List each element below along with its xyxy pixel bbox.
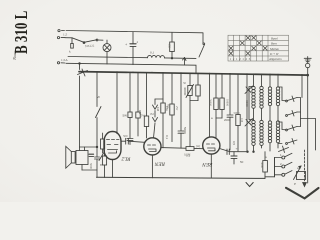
svg-text:W: W (97, 95, 100, 99)
svg-text:+: + (236, 147, 238, 151)
loudspeaker LS (66, 146, 75, 168)
switch S8 (286, 139, 297, 145)
resistor R4 (170, 104, 179, 142)
wire drop x209 tube3 (209, 73, 211, 137)
wire x302 drop (301, 75, 303, 98)
svg-text:B: B (100, 163, 102, 167)
wire T1a link (253, 108, 255, 120)
terminal minus (58, 30, 65, 32)
potentiometer P2 (294, 166, 306, 180)
svg-text:B 310 L: B 310 L (12, 11, 31, 54)
contact K1 (275, 153, 293, 159)
wire contacts vertical (274, 158, 276, 177)
switch S4 (199, 33, 205, 57)
trimmer S9b (245, 119, 253, 127)
aerial symbol (304, 57, 311, 64)
wire drop x138 (137, 73, 139, 113)
switch S6 (286, 111, 297, 117)
node right bus (247, 151, 249, 153)
node J1 (79, 63, 81, 65)
wire T2 right bracket lower (278, 122, 286, 130)
coil T2d lower secondary (276, 121, 279, 143)
wire T2c bottom lead (269, 143, 271, 151)
wire T2d bottom lead (277, 143, 279, 148)
wire T2b link (277, 106, 279, 121)
svg-text:0,1: 0,1 (165, 135, 169, 140)
svg-text:0,5: 0,5 (232, 141, 236, 146)
pickup arrow node (183, 58, 187, 66)
wire T2a link (269, 106, 271, 121)
potentiometer P1 (183, 73, 194, 100)
svg-text:Basel: Basel (271, 36, 278, 40)
svg-text:5000: 5000 (260, 162, 264, 169)
resistor R8 (236, 74, 244, 151)
wire left drop (79, 76, 81, 147)
wire drop x181 (178, 73, 184, 148)
wire T1 left bracket (249, 87, 254, 120)
potentiometer P3 (99, 152, 105, 168)
wire T1d bottom lead (261, 145, 263, 148)
wire T2a top lead (269, 74, 271, 87)
svg-text:0,1: 0,1 (248, 120, 252, 125)
capacitor C3 (89, 147, 100, 177)
contact K3 (275, 171, 293, 177)
grid cap G1 (153, 99, 158, 138)
resistor R7 (220, 74, 229, 118)
switch S2 (78, 69, 88, 76)
wire to fuse (65, 38, 72, 44)
ground small (246, 183, 253, 187)
capacitor C2 (127, 139, 133, 145)
svg-text:500: 500 (123, 134, 128, 138)
arrow down (303, 183, 307, 187)
coil T2c lower primary (268, 121, 271, 143)
svg-text:REN: REN (154, 160, 166, 166)
tube V3 REN (203, 137, 220, 178)
wire tube3 right (220, 149, 248, 152)
svg-text:15k: 15k (165, 106, 169, 111)
svg-text:6800: 6800 (245, 100, 249, 107)
resistor R3 (144, 112, 154, 138)
svg-text:1M: 1M (240, 118, 244, 123)
wire T2b top lead (277, 75, 279, 88)
contact K2 (275, 162, 293, 168)
resistor R10 horizontal (184, 147, 194, 158)
coil T2a primary (268, 87, 271, 106)
wire right bracket lower2 (278, 143, 282, 145)
lamp LP1 (103, 40, 111, 64)
terminal plus (57, 58, 68, 64)
choke L2 coil (148, 51, 165, 58)
misc tiny labels (97, 87, 299, 186)
resistor R5 (190, 73, 200, 146)
coil T1a primary (252, 86, 255, 108)
wire right edge vertical (307, 75, 309, 183)
resistor R11 (260, 152, 267, 179)
svg-text:RL2: RL2 (121, 156, 131, 162)
resistor R6 (209, 74, 219, 118)
coil T1d lower secondary (260, 120, 263, 145)
wire tee (155, 98, 163, 100)
wire drop x97 (96, 72, 98, 147)
table block (228, 35, 289, 61)
wire speaker top (80, 146, 98, 148)
svg-text:D + W: D + W (269, 52, 279, 56)
svg-text:1M: 1M (150, 112, 155, 116)
wire line L4 (66, 63, 196, 73)
wire to contacts (265, 158, 275, 177)
resistor R13 (101, 133, 105, 153)
node speaker (96, 146, 98, 148)
wire T1c bottom lead (253, 145, 255, 151)
resistor R12 (161, 99, 170, 148)
switch S1 (83, 39, 103, 48)
svg-text:5000: 5000 (183, 127, 187, 134)
svg-text:5W: 5W (123, 114, 128, 118)
fuse F1 (69, 44, 73, 54)
svg-text:50: 50 (240, 160, 244, 164)
svg-text:2000: 2000 (224, 118, 231, 122)
table X marks (229, 36, 267, 56)
svg-text:2W: 2W (175, 106, 179, 111)
wire tube2 right (161, 148, 203, 149)
table labels (268, 36, 282, 61)
chassis ground GND (286, 188, 319, 199)
capacitor C5 (227, 149, 229, 155)
trimmer S9 (245, 86, 253, 94)
wire dashed trimmer (304, 150, 306, 182)
resistor R2 (136, 112, 146, 136)
wire drop x230 (227, 74, 240, 150)
switch S10 (279, 146, 289, 153)
svg-text:1 2 1 2 1 2 3: 1 2 1 2 1 2 3 (230, 57, 251, 61)
svg-text:40000: 40000 (183, 87, 187, 96)
table column lines (234, 35, 268, 61)
svg-text:0,1: 0,1 (186, 154, 191, 158)
node bus right (307, 74, 309, 76)
svg-text:REN: REN (202, 161, 214, 167)
table frame (228, 35, 289, 61)
wire T2 right bracket upper (278, 87, 286, 101)
capacitor C1 electrolytic (125, 32, 139, 65)
svg-text:5000: 5000 (89, 163, 93, 170)
wire T1a top lead (253, 74, 255, 86)
switch S7 (286, 125, 297, 131)
svg-text:Allgemein: Allgemein (268, 57, 282, 61)
svg-text:10000: 10000 (226, 99, 229, 107)
resistor R9 (102, 150, 106, 178)
wire T1b link (261, 108, 263, 120)
wire right collector (297, 98, 308, 127)
coil T1c lower primary (252, 120, 255, 145)
switch S5 wave band (286, 96, 297, 102)
resistor R1 vertical (168, 33, 175, 60)
coil T1b secondary (260, 86, 263, 108)
svg-text:1M: 1M (156, 107, 160, 112)
output transformer T3 (76, 147, 97, 170)
wire drop x146.5 (146, 73, 148, 116)
svg-text:Mutlan: Mutlan (269, 47, 279, 51)
svg-text:P: P (294, 182, 296, 186)
wire right lower (308, 119, 316, 151)
wire tie R6R7 (216, 117, 222, 119)
coil T2b secondary (276, 87, 279, 106)
wire drop x163 (162, 73, 164, 99)
svg-text:MX222: MX222 (85, 44, 95, 49)
wire top line L1 (66, 31, 203, 33)
capacitor C4 coupling (121, 134, 145, 144)
svg-text:150: 150 (168, 44, 172, 49)
terminal AC (57, 32, 67, 38)
wire fuse to switch (72, 38, 84, 43)
svg-text:50000: 50000 (209, 99, 212, 107)
wire drop x247 (246, 74, 248, 151)
main bus (79, 72, 308, 76)
capacitor C6 electrolytic (231, 147, 238, 164)
wire stub J1 down (79, 64, 81, 70)
switch S3 (96, 107, 102, 118)
wire to tube3 grid (215, 118, 217, 138)
svg-text:(A): (A) (196, 144, 200, 148)
wire T1b top lead (261, 74, 263, 86)
svg-text:50: 50 (183, 81, 187, 85)
tube V1 RL2 (104, 72, 121, 177)
table row lines (228, 40, 289, 56)
wire drop x172 (171, 73, 173, 104)
fuse F2 top right (306, 63, 310, 75)
wire line L3 (68, 57, 196, 59)
wire bottom line (97, 177, 266, 178)
main bus junction dots (96, 71, 303, 76)
tube V2 REN (144, 138, 161, 178)
svg-text:Bern: Bern (271, 42, 277, 46)
svg-text:1W: 1W (138, 110, 142, 115)
capacitor C7 (89, 154, 94, 156)
wire drop x130 (129, 72, 131, 112)
